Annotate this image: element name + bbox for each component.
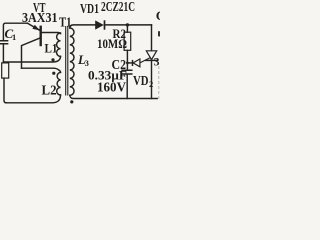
transformer T1 winding L3 <box>70 28 74 95</box>
svg-text:2CZ21C: 2CZ21C <box>101 0 135 14</box>
svg-text:1: 1 <box>12 32 16 42</box>
wire L3 top to VD1 <box>70 25 95 28</box>
polarity dot L3 <box>70 100 73 103</box>
thyristor VS triangle <box>146 51 156 60</box>
svg-text:L1: L1 <box>45 40 58 55</box>
wire node to VD2 <box>127 62 132 64</box>
wire top-left rail <box>3 23 27 40</box>
svg-text:T1: T1 <box>59 15 72 30</box>
svg-text:2: 2 <box>149 79 153 89</box>
wire collector to L2 top <box>22 68 61 72</box>
thyristor VS anode wire <box>151 25 153 51</box>
wire node to L1 bottom <box>3 56 60 62</box>
diode VD1 <box>95 20 104 29</box>
transformer T1 winding L1 <box>57 33 61 56</box>
transistor VT base wire to L1 <box>42 33 61 34</box>
svg-text:C: C <box>156 8 160 23</box>
diode VD2 <box>133 59 140 67</box>
svg-text:3AX31: 3AX31 <box>22 10 58 25</box>
resistor R2 <box>124 32 131 50</box>
wire R1 to bottom rail <box>4 78 7 103</box>
wire bottom-left rail <box>6 95 61 103</box>
wire L3 bottom to right rail <box>70 95 157 98</box>
svg-text:160V: 160V <box>97 80 126 95</box>
transformer T1 core <box>66 27 68 96</box>
svg-text:L2: L2 <box>42 83 57 98</box>
polarity dot L1 <box>51 58 54 61</box>
svg-text:VD1: VD1 <box>80 1 99 16</box>
transistor VT emitter wire <box>28 23 40 30</box>
wire R2 to C2 <box>126 50 128 69</box>
transistor VT emitter arrow <box>32 25 40 31</box>
wire C1 to node <box>2 44 4 62</box>
junction dot R2-VD2 <box>126 62 129 65</box>
junction dot rail-R2 <box>126 23 129 26</box>
thyristor VS cathode bar <box>146 59 157 61</box>
resistor R1 <box>2 63 9 78</box>
svg-text:10MΩ: 10MΩ <box>97 36 127 51</box>
capacitor C2 <box>122 70 132 74</box>
faint page edge line <box>158 66 160 101</box>
cut-off mark right edge <box>158 31 161 36</box>
transformer T1 winding L2 <box>57 72 61 95</box>
wire C2 to bottom rail <box>126 75 128 99</box>
wire VD1 to SCR top <box>105 24 152 26</box>
transistor VT collector wire <box>22 38 41 68</box>
polarity dot L2 <box>52 72 55 75</box>
svg-text:VD: VD <box>133 73 149 88</box>
thyristor VS cathode wire <box>151 61 153 99</box>
capacitor C1 <box>0 41 8 44</box>
wire VD2 gate diagonal <box>140 57 150 62</box>
transistor VT base bar <box>40 27 42 45</box>
wire R2 branch <box>126 25 128 32</box>
